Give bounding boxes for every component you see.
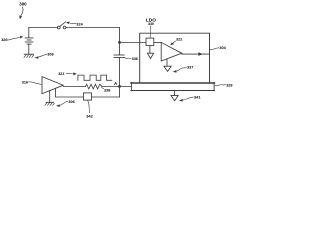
ground arrow under LDO [147, 46, 153, 59]
label 337 [173, 65, 194, 72]
wire resistor to bar [102, 86, 131, 88]
op-amp 322 [161, 42, 182, 61]
switch 324 [57, 22, 65, 29]
label 316 [22, 80, 41, 84]
svg-text:328: 328 [226, 83, 232, 87]
op-amp output arrow [182, 52, 210, 56]
svg-text:341: 341 [194, 95, 201, 100]
amp output wire [63, 86, 85, 88]
label 306 (amp ground) [56, 100, 75, 107]
wire junction to LDO box [120, 42, 147, 44]
svg-text:337: 337 [187, 65, 193, 69]
feedback wire from amp [55, 89, 83, 98]
wire switch to corner [66, 27, 120, 29]
svg-text:336: 336 [132, 57, 138, 61]
svg-text:326: 326 [1, 38, 7, 42]
junction dot A [118, 85, 121, 88]
label 308 (battery ground) [34, 53, 53, 59]
label 322 [170, 38, 182, 46]
junction dot [118, 41, 121, 44]
wire down to junction [119, 28, 121, 43]
svg-text:338: 338 [104, 88, 110, 92]
label 326 [1, 36, 23, 42]
svg-text:306: 306 [68, 100, 74, 104]
label 304 [210, 46, 226, 50]
wire A down to feedback [119, 87, 121, 98]
label 342 [86, 100, 93, 118]
svg-text:316: 316 [22, 80, 28, 84]
resistor 338 [86, 84, 102, 89]
square wave 321 [78, 75, 112, 80]
svg-text:342: 342 [86, 114, 93, 119]
label 341 [179, 95, 201, 102]
svg-text:324: 324 [76, 22, 83, 26]
battery 326 [25, 28, 33, 55]
wire battery to switch [29, 27, 58, 29]
feedback box 342 [83, 93, 91, 100]
svg-text:330: 330 [148, 22, 154, 26]
svg-text:321: 321 [58, 72, 64, 76]
label 324 [66, 22, 84, 27]
figure label 300 [19, 2, 27, 20]
svg-text:300: 300 [19, 2, 27, 7]
svg-text:304: 304 [219, 46, 226, 50]
ground arrow under bar [171, 90, 178, 101]
capacitor 336 [114, 43, 124, 87]
label 338 [102, 87, 111, 92]
label 328 [215, 83, 233, 87]
svg-text:308: 308 [47, 53, 53, 57]
wire LDO to op-amp [154, 42, 161, 44]
amplifier 316 [42, 77, 63, 94]
svg-text:322: 322 [176, 38, 182, 42]
svg-text:A: A [114, 81, 118, 86]
ground under amp [45, 91, 54, 106]
LDO U330 box [146, 38, 154, 46]
label 321 [58, 72, 77, 76]
ground (battery) [24, 54, 34, 57]
label 336 [125, 57, 138, 61]
block 304 [140, 33, 210, 83]
wire box to A [92, 96, 120, 98]
label LDO 330 [146, 18, 156, 38]
ground arrow under op-amp [164, 59, 171, 72]
bus bar 328 [131, 82, 215, 84]
